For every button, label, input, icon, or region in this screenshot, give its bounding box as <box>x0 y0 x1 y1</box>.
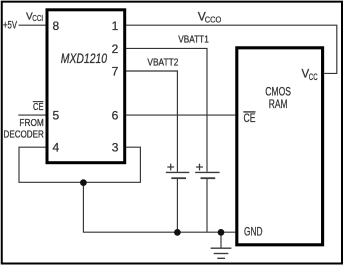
svg-text:MXD1210: MXD1210 <box>61 51 108 66</box>
svg-text:7: 7 <box>112 65 119 79</box>
svg-text:FROM: FROM <box>19 118 43 129</box>
svg-text:GND: GND <box>244 224 263 238</box>
svg-text:6: 6 <box>112 109 119 123</box>
svg-text:DECODER: DECODER <box>4 130 44 141</box>
svg-text:VBATT2: VBATT2 <box>147 58 178 69</box>
svg-text:CE: CE <box>33 102 44 113</box>
svg-text:CE: CE <box>244 111 256 125</box>
svg-text:CMOS: CMOS <box>265 84 291 98</box>
svg-text:VBATT1: VBATT1 <box>178 35 209 46</box>
svg-text:CC: CC <box>309 72 318 82</box>
svg-text:4: 4 <box>53 141 60 155</box>
svg-text:+5V: +5V <box>3 20 17 32</box>
svg-text:1: 1 <box>112 19 119 33</box>
svg-text:CCO: CCO <box>205 14 222 24</box>
svg-text:2: 2 <box>112 42 119 56</box>
svg-text:3: 3 <box>112 141 119 155</box>
svg-text:RAM: RAM <box>269 97 288 111</box>
svg-text:8: 8 <box>53 19 60 33</box>
svg-text:5: 5 <box>53 109 60 123</box>
svg-text:CCI: CCI <box>32 14 43 23</box>
